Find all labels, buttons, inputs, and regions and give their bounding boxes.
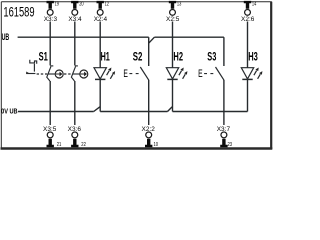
svg-text:0V UB: 0V UB [1,108,18,116]
svg-text:UB: UB [2,32,10,42]
svg-text:21: 21 [57,142,62,148]
wire X3:3 to S1 contact 1 [49,22,51,66]
wire H2 to 0V bus [172,79,174,111]
svg-text:S3: S3 [207,49,216,63]
S2 contact blade [140,67,149,80]
S2 actuation dashed line [129,73,140,75]
0V bus segment 3 [173,111,248,113]
S3 contact blade [216,67,225,80]
svg-text:161589: 161589 [3,4,34,19]
wire H1 to 0V bus [99,79,101,111]
wire X2:6 to H3 [247,22,249,68]
S1 contact 2 link to position circle [73,73,80,75]
UB bus jog diagonal at S2 [149,37,155,43]
svg-text:S2: S2 [133,49,143,63]
S1 contact 2 blade [71,67,75,81]
S1 contact 1 blade [47,67,51,81]
S1 position indicator circle 2 with arrow [80,70,88,78]
S1 contact 1 tick [50,65,53,67]
wire UB bus corner to S3 contact [223,37,225,66]
UB bus right segment [154,36,224,38]
wire X2:4 to H1 [99,22,101,68]
terminal X2:5 (13) top [166,1,181,23]
svg-text:H2: H2 [173,49,183,63]
UB bus left segment [18,36,149,38]
wire H3 to 0V bus [247,79,249,111]
wire UB bus to S2 contact [148,37,150,66]
svg-text:13: 13 [177,1,181,7]
LED H2 [166,68,187,80]
svg-text:E: E [123,68,128,80]
terminal X3:3 (19) top [44,1,59,23]
frame border [1,2,273,149]
S1 detent symbol [30,60,37,64]
svg-text:H1: H1 [101,49,110,63]
S3 actuation dashed line [204,73,215,75]
S1 contact 1 link to position circle [48,73,55,75]
S1 actuation dashed line to contact 1 [37,73,48,75]
wire S1 contact 1 to X3:5 [49,81,51,125]
wire X2:5 to H2 [172,22,174,68]
terminal X2:6 (14) top [241,1,256,23]
S1 linkage dashed line circle1 to contact 2 [64,73,72,75]
0V bus jog diagonal at H2 [168,107,173,112]
terminal X2:4 (12) top [94,1,109,23]
svg-text:E: E [198,68,203,80]
LED H3 [241,68,262,80]
terminal X3:5 (21) bottom [43,126,61,148]
svg-text:23: 23 [228,142,233,148]
S1 contact 2 tick [75,65,78,67]
S1 key actuator stem [33,64,35,72]
svg-text:10: 10 [154,142,159,148]
svg-text:20: 20 [79,1,83,7]
terminal X3:7 (23) bottom [217,126,232,148]
svg-text:H3: H3 [248,49,258,63]
terminal X3:6 (22) bottom [68,126,86,148]
0V bus segment 2 [100,111,167,113]
0V bus jog diagonal at H1 [94,107,100,112]
svg-text:19: 19 [55,1,59,7]
S1 key actuator shaft [26,73,35,75]
wire S1 contact 2 to X3:6 [74,81,76,125]
wire S2 contact to X2:2 [148,80,150,125]
terminal X3:4 (20) top [68,1,83,23]
svg-text:22: 22 [81,142,86,148]
svg-text:12: 12 [105,1,109,7]
svg-text:14: 14 [252,1,256,7]
LED H1 [94,68,115,80]
svg-text:S1: S1 [39,49,48,63]
wire S3 contact to X3:7 [223,80,225,125]
0V bus segment 1 [18,111,94,113]
S1 key bow [26,72,30,74]
wire X3:4 to S1 contact 2 [74,22,76,66]
terminal X2:2 (10) bottom [142,126,159,148]
S1 position indicator circle 1 with arrow [55,70,63,78]
